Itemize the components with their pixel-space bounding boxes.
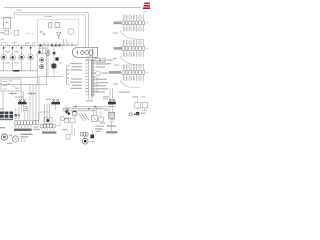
sensor dark mark B1 xyxy=(53,52,56,55)
diode triangle D1 xyxy=(57,33,61,39)
label near mid blob xyxy=(59,62,63,63)
wire stubs X3 row ends xyxy=(121,71,148,73)
connector ladder T1 left line xyxy=(88,59,90,97)
wire labels above X1 xyxy=(125,15,142,19)
J1 glyph circle1 xyxy=(80,51,84,55)
wire comb above X4 xyxy=(16,108,28,121)
label left edge small xyxy=(0,127,5,128)
tick under right box xyxy=(142,110,146,112)
diamond contact b xyxy=(67,112,70,115)
wires splice to coil box xyxy=(110,104,113,112)
ground label bar right col xyxy=(106,131,117,133)
idle valve box xyxy=(92,116,98,122)
label right of relays xyxy=(107,59,113,60)
harness curve X3 xyxy=(120,80,140,88)
contact ticks below coil xyxy=(110,120,114,122)
connector X2 label xyxy=(114,47,122,50)
fuse F1 tick xyxy=(3,46,5,55)
switch block box S4 xyxy=(1,79,21,91)
wire mid drop b xyxy=(53,46,55,77)
fuse F4 tick xyxy=(30,46,32,55)
wire top border rail xyxy=(4,6,141,8)
resistor pair R1 xyxy=(47,50,50,53)
wire drops mid-bottom xyxy=(45,104,50,122)
pin row fuse box xyxy=(40,42,72,46)
label right of X5 xyxy=(33,129,40,130)
connector X1 pin wires above xyxy=(123,15,143,21)
sensor circle G2 xyxy=(96,71,101,76)
fuse contact dark a xyxy=(51,45,53,47)
ladder top cap xyxy=(87,57,93,60)
label above fuse box xyxy=(44,16,52,17)
label below X3 xyxy=(119,92,130,93)
wire pair below W2 xyxy=(22,105,24,113)
lamp H1 circle xyxy=(68,29,74,35)
connector X6 row xyxy=(41,124,56,128)
relay box top right a xyxy=(95,58,100,62)
diamond contact a xyxy=(65,110,68,113)
wire comb to starter xyxy=(83,136,85,139)
label wire colours row2 xyxy=(15,51,20,52)
J1 glyph circle2 xyxy=(85,51,89,55)
sender unit G4 xyxy=(44,118,52,124)
wires below ladder xyxy=(89,97,92,100)
labels in cluster xyxy=(95,126,104,127)
label above feed line xyxy=(16,10,22,11)
wire labels above X3 xyxy=(125,65,142,69)
starter motor circle xyxy=(82,138,88,144)
ground rail mid xyxy=(37,76,62,78)
pump W1 circle xyxy=(40,64,44,68)
fuse contact dark b xyxy=(55,45,57,47)
wire dash link xyxy=(10,32,13,34)
bus stub ticks xyxy=(2,44,35,48)
wire stubs X1 row ends xyxy=(121,22,148,24)
connector X3 cell row xyxy=(122,71,145,75)
wire labels below X2 xyxy=(125,52,142,56)
label G2 xyxy=(102,72,109,73)
small box lower left of cluster xyxy=(66,135,70,140)
connector X1 label xyxy=(114,22,122,25)
fuse contact dark c xyxy=(58,45,60,47)
ladder left labels xyxy=(70,63,82,89)
bracket nubs xyxy=(67,69,69,79)
ground rail 1 xyxy=(0,70,37,72)
label wire codes left col xyxy=(5,62,10,63)
connector X3 pin wires below xyxy=(123,75,143,82)
labels on rails xyxy=(97,108,102,109)
injector V1 xyxy=(1,55,6,60)
connector X1 pin wires below xyxy=(123,25,143,32)
connector X2 pin wires above xyxy=(123,40,143,46)
fuse F2 contact xyxy=(12,47,14,49)
fuse holder box B xyxy=(14,31,18,36)
wire G2 stub xyxy=(93,72,96,74)
label below ladder xyxy=(86,100,93,101)
wire left drop of feed xyxy=(0,12,15,18)
bottom rail upper xyxy=(72,106,116,108)
wire L mid-bottom xyxy=(39,112,50,121)
small box pair xyxy=(70,118,75,123)
relay boxes far right xyxy=(135,103,141,108)
label under bus xyxy=(38,48,48,49)
label bar X6 xyxy=(42,131,56,133)
control unit box J1 xyxy=(72,47,97,57)
ignition coil box xyxy=(109,112,115,118)
label right of G3 row2 xyxy=(21,136,29,137)
label near valve xyxy=(65,118,69,119)
ladder pin squares xyxy=(91,60,93,96)
label right of X4 bar xyxy=(34,126,39,127)
label above ground joint W2 xyxy=(15,96,23,97)
J1 glyph plus xyxy=(76,51,78,55)
fuse F3 tick xyxy=(21,46,23,55)
ladder right small boxes xyxy=(95,78,98,80)
X6 below ticks xyxy=(42,128,54,131)
ground joint W2 dark xyxy=(18,102,27,104)
wire mid drop a xyxy=(47,46,49,77)
connector ladder T1 right line xyxy=(91,59,93,97)
relay square K3 xyxy=(55,23,60,28)
label wire colours row xyxy=(6,51,11,52)
wire nested feed line inner xyxy=(16,15,85,48)
junction dot b xyxy=(88,108,90,110)
label column small left xyxy=(24,106,28,107)
wires far right cluster xyxy=(138,99,145,112)
splice dark right xyxy=(108,102,116,105)
connector X3 pin wires above xyxy=(123,64,143,70)
label right of G3 xyxy=(20,134,32,135)
tick pair right of diode xyxy=(63,39,66,44)
wire labels below X1 xyxy=(125,27,142,31)
horn B2 double circle xyxy=(1,134,7,140)
ticks between rails xyxy=(66,107,69,111)
ladder right labels xyxy=(96,60,108,92)
splice arrows left xyxy=(9,92,18,95)
breather valve circle xyxy=(60,117,64,121)
ladder rungs xyxy=(85,61,95,95)
junction dot d xyxy=(94,106,96,108)
ground rail 2 xyxy=(0,76,37,78)
aux box xyxy=(99,117,103,122)
wire bundle verticals left xyxy=(3,77,39,122)
grommet on wire xyxy=(38,51,41,54)
junction dot c xyxy=(67,109,69,111)
fuse F2 tick xyxy=(12,46,14,55)
dark dash note xyxy=(134,114,139,115)
fuse box outline E1 xyxy=(37,19,78,44)
label stack cluster right xyxy=(100,123,105,124)
label left of W3 xyxy=(46,99,51,100)
S4 step contacts xyxy=(3,82,15,90)
wire to blob xyxy=(91,130,93,135)
connector X2 pin wires below xyxy=(123,51,143,58)
J1 glyph rect xyxy=(89,50,92,55)
injector V4 xyxy=(28,55,33,60)
label under G3 xyxy=(7,143,13,144)
wire V4 drop xyxy=(30,60,32,71)
fuse F3 contact xyxy=(21,47,23,49)
harness curve X1 xyxy=(120,31,144,40)
switch dark S3 xyxy=(55,57,58,60)
S4 inner labels xyxy=(9,80,13,81)
fuse F4 contact xyxy=(30,47,32,49)
hatch bundle xyxy=(79,113,89,121)
motor M1 circle xyxy=(40,58,44,62)
wire bus to M1 pins xyxy=(40,46,46,54)
junction dot a xyxy=(75,106,77,108)
fuse holder box A xyxy=(5,31,9,35)
injector V3 xyxy=(19,55,24,60)
label right of blob xyxy=(141,113,146,114)
bottom rail lower xyxy=(72,108,108,110)
motor box M1 xyxy=(37,54,46,85)
connector X1 cell row xyxy=(122,21,145,25)
J1 inner divider xyxy=(92,48,94,57)
margin notes right column xyxy=(113,33,118,34)
contact set S2 xyxy=(40,31,45,36)
label beside horn xyxy=(9,135,12,136)
wire V2 drop xyxy=(12,60,14,71)
small circle note xyxy=(129,113,132,116)
battery G1 box xyxy=(4,17,11,28)
relay box top right b xyxy=(101,58,106,62)
relay block dark K4 xyxy=(0,112,13,121)
wire nested feed line outer xyxy=(15,12,89,47)
wire stubs X2 row ends xyxy=(121,47,148,49)
relay capsule K2 xyxy=(49,22,52,28)
wire labels above X2 xyxy=(125,41,142,45)
label near right splice xyxy=(103,96,109,97)
wires from X3 down to splice xyxy=(110,88,113,102)
ground rail 3 xyxy=(0,84,37,86)
label left of splice xyxy=(103,98,108,99)
wire V1 drop xyxy=(3,60,5,71)
wire dash row mid top xyxy=(26,32,34,34)
label far right top xyxy=(133,96,139,97)
connector X4 row xyxy=(15,121,33,125)
comb connector above starter xyxy=(81,133,88,136)
fuse F1 contact xyxy=(3,47,5,49)
label bar dark X4 xyxy=(14,129,32,131)
wire below coil xyxy=(111,122,113,131)
battery terminal mark xyxy=(6,21,8,23)
battery terminal ticks xyxy=(5,29,8,31)
tiny box right of G3 xyxy=(22,138,26,141)
sensor wheel G3 xyxy=(12,136,18,142)
small box under diamonds xyxy=(65,118,69,123)
splice bar S1 xyxy=(13,70,19,72)
wires down cluster left xyxy=(72,123,74,136)
label below coil xyxy=(107,125,116,126)
red logo xyxy=(143,2,151,12)
K4 side contacts dark xyxy=(15,114,17,116)
fuel pump dark blob xyxy=(136,112,139,115)
wire below W3 xyxy=(55,105,57,110)
wire labels below X3 xyxy=(125,76,142,80)
label text G1 xyxy=(1,32,4,33)
harness bracket xyxy=(67,66,70,85)
splice arrows right xyxy=(27,92,36,95)
label left margin notes xyxy=(106,63,111,64)
X4 lower ticks xyxy=(16,125,31,128)
injector V2 xyxy=(10,55,15,60)
main supply bus xyxy=(0,45,78,47)
wire drop pair from S4 xyxy=(22,91,24,100)
connector X5 two-cell xyxy=(33,120,39,124)
dark contact blob right xyxy=(90,135,94,139)
fuse contact dark pre xyxy=(40,45,42,47)
throttle unit ring xyxy=(72,111,77,116)
labels above bus xyxy=(2,42,7,43)
wire stub at x62 xyxy=(61,44,63,50)
harness curve X2 xyxy=(120,56,144,65)
small box top left of cluster xyxy=(63,108,66,111)
valve dark N1 xyxy=(52,64,57,69)
bottom rail third xyxy=(64,110,96,112)
connector X3 label xyxy=(109,71,121,74)
label left of starter xyxy=(62,129,68,130)
wire V3 drop xyxy=(21,60,23,71)
wires into cluster xyxy=(94,107,101,117)
oxygen sensor W3 dark xyxy=(51,102,60,104)
connector X2 cell row xyxy=(122,47,145,51)
wire stub to valve xyxy=(56,120,60,126)
